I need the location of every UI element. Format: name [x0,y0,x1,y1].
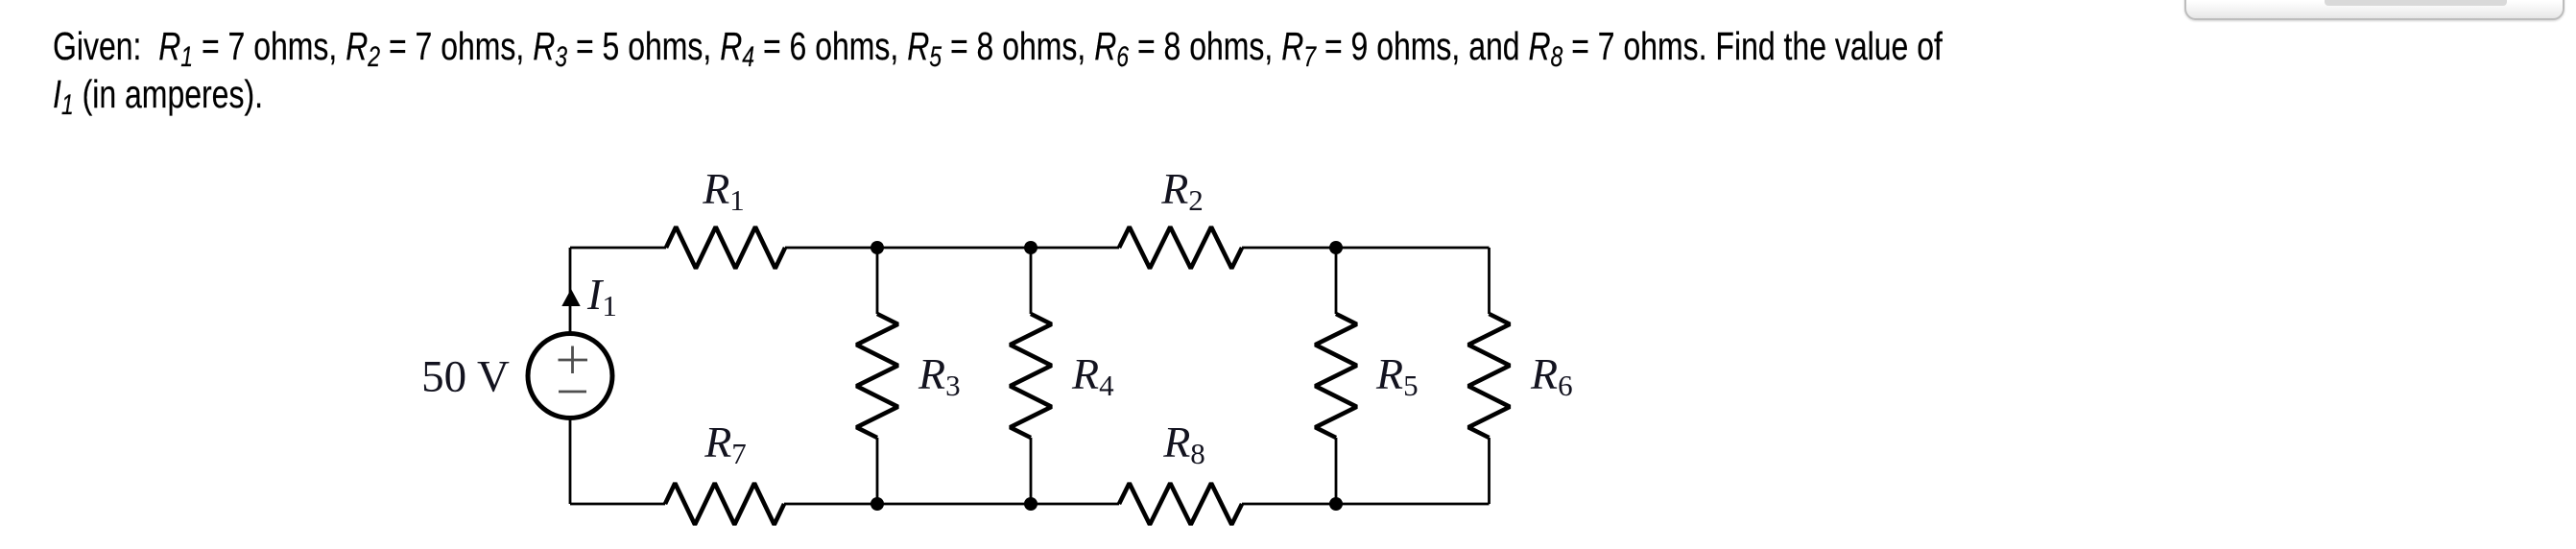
wire top-right segment [1242,247,1490,250]
voltage source V1 50V circle [528,334,612,418]
svg-text:R8: R8 [1162,418,1205,470]
svg-text:R6: R6 [1530,349,1573,402]
popup panel top right [2184,0,2564,20]
wire bottom-middle segment [784,503,1119,506]
svg-text:R2: R2 [1160,164,1204,217]
node junction dot 3 [1329,241,1343,254]
wire R5 branch upper [1335,248,1338,314]
wire R3 branch upper [876,248,879,314]
node junction dot 5 [1024,497,1038,511]
svg-text:50 V: 50 V [421,352,510,402]
resistor R2 [1119,227,1242,268]
svg-text:I1: I1 [586,270,617,322]
wire right vertical lower [1488,438,1491,504]
resistor R1 [666,227,785,268]
voltage source plus sign [559,346,588,374]
problem statement text [53,22,1943,118]
wire left vertical above source [569,248,572,332]
wire left vertical below source [569,419,572,504]
voltage source minus sign [559,391,586,394]
wire right vertical upper [1488,248,1491,314]
node junction dot 2 [1024,241,1038,254]
resistor R7 [665,483,784,524]
wire R5 branch lower [1335,438,1338,504]
wire top-left segment [570,247,666,250]
svg-text:R3: R3 [918,349,961,402]
wire R3 branch lower [876,438,879,504]
wire R4 branch upper [1030,248,1033,314]
wire top-middle segment [785,247,1119,250]
wire bottom-right segment [1242,503,1490,506]
scrollbar thumb in panel [2325,0,2507,6]
svg-text:R5: R5 [1375,349,1419,402]
node junction dot 4 [871,497,884,511]
resistor R5 [1315,314,1356,438]
node junction dot 6 [1329,497,1343,511]
wire bottom-left segment [570,503,665,506]
node junction dot 1 [871,241,884,254]
current I1 arrow [561,289,580,306]
resistor R4 [1010,314,1051,438]
resistor R6 [1468,314,1510,438]
svg-text:R1: R1 [702,164,745,217]
wire R4 branch lower [1030,438,1033,504]
resistor R3 [856,314,897,438]
svg-text:R4: R4 [1071,349,1114,402]
resistor R8 [1119,483,1242,524]
svg-text:R7: R7 [704,418,747,470]
